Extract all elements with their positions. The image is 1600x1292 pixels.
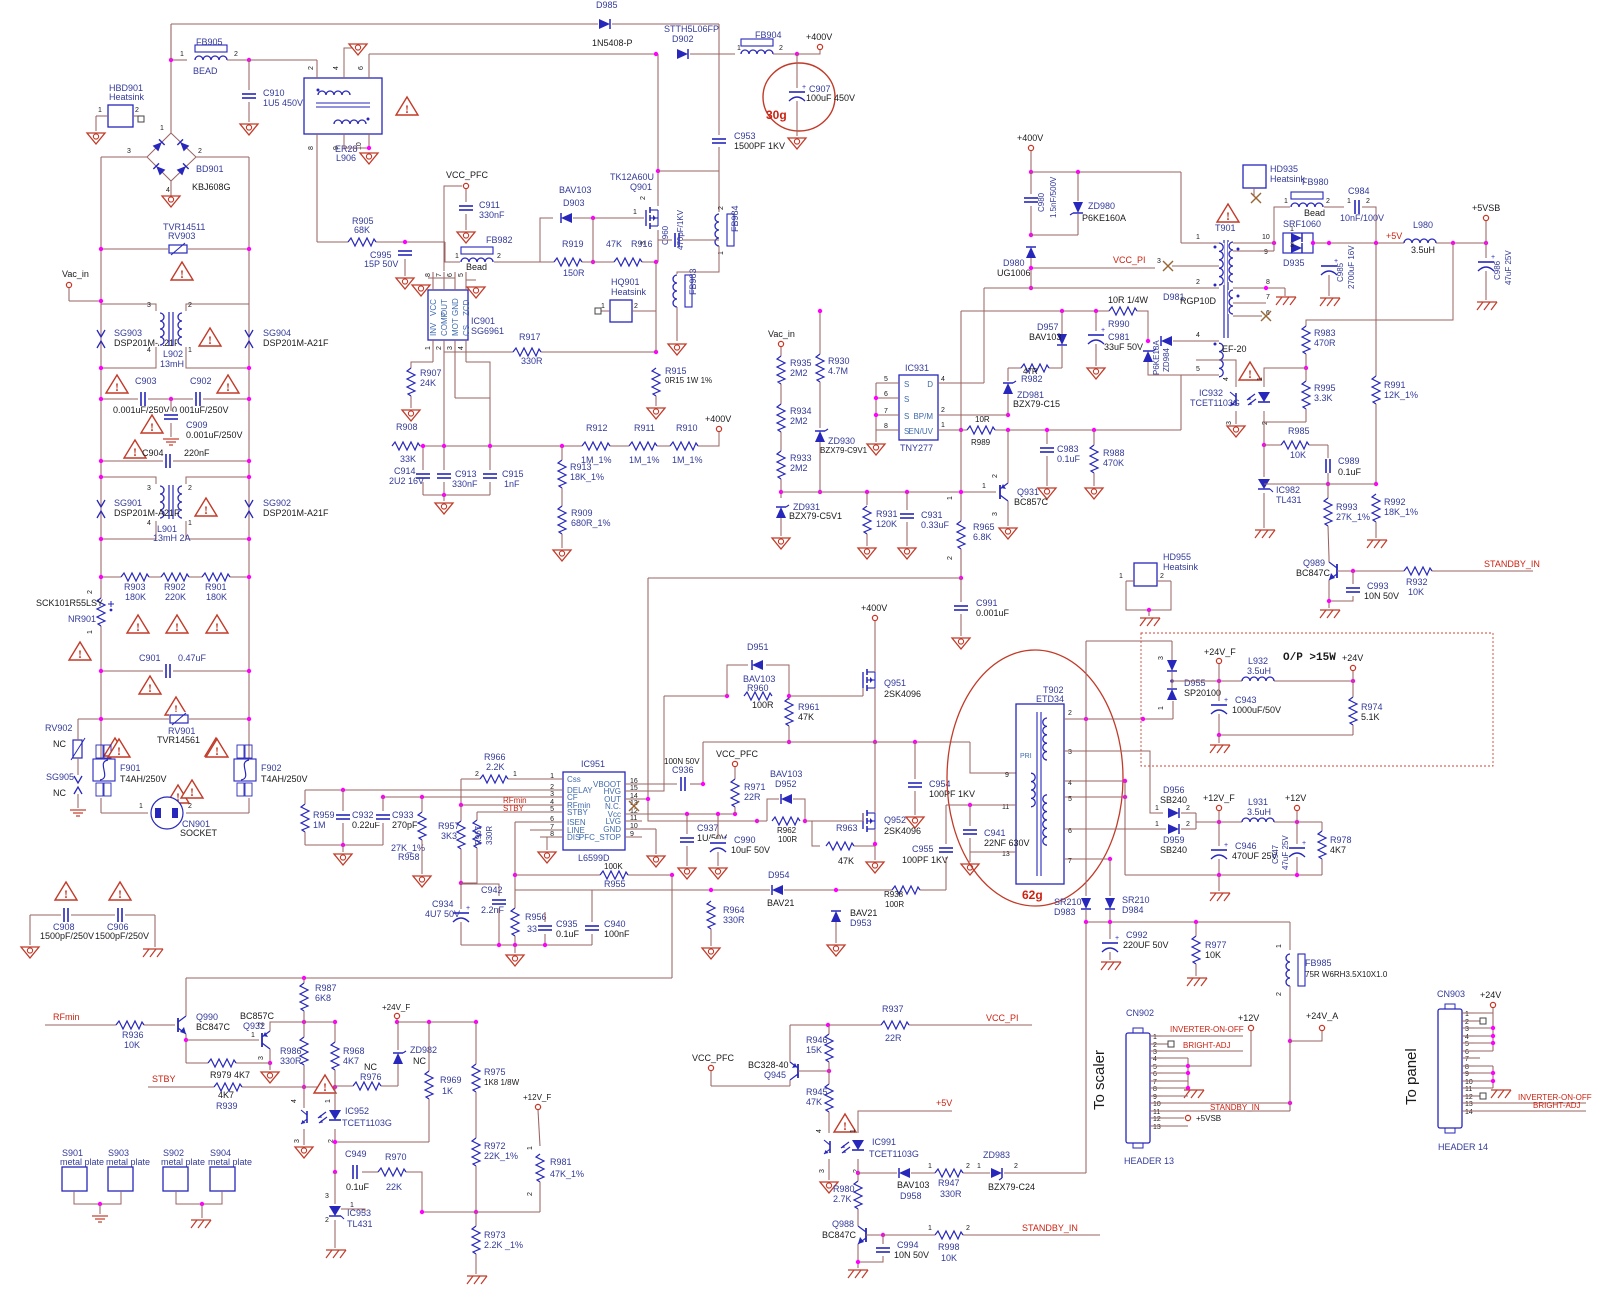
svg-text:9: 9 <box>1264 249 1268 256</box>
svg-text:!: ! <box>208 333 212 347</box>
wire <box>1296 811 1298 822</box>
wire <box>1474 1042 1493 1044</box>
svg-text:3: 3 <box>1465 1026 1469 1033</box>
svg-text:4: 4 <box>147 347 151 354</box>
wire <box>1030 206 1032 235</box>
svg-text:11: 11 <box>1153 1109 1160 1116</box>
junction <box>442 493 446 497</box>
svg-text:2: 2 <box>1014 1163 1018 1170</box>
svg-text:2: 2 <box>325 1217 329 1224</box>
junction <box>725 694 729 698</box>
svg-text:C934: C934 <box>432 899 454 909</box>
junction <box>779 490 783 494</box>
node +5VSB <box>1483 215 1488 220</box>
svg-text:TVR14561: TVR14561 <box>157 735 200 745</box>
wire <box>498 908 500 945</box>
svg-text:5.1K: 5.1K <box>1361 712 1380 722</box>
wire IC951 pin 10 <box>625 828 642 830</box>
wire <box>1474 1072 1493 1074</box>
wire <box>1195 922 1197 936</box>
ground Q932 <box>261 1072 279 1083</box>
svg-text:+5VSB: +5VSB <box>1196 1114 1221 1123</box>
svg-text:IC951: IC951 <box>581 759 605 769</box>
resistor R972 <box>471 1138 481 1166</box>
svg-text:R983: R983 <box>1314 328 1336 338</box>
svg-text:2SK4096: 2SK4096 <box>884 689 921 699</box>
wire <box>475 1092 477 1138</box>
svg-text:6: 6 <box>358 66 365 70</box>
wire Css row <box>461 778 530 780</box>
wire +12V rail <box>1196 821 1322 823</box>
ground Q988 <box>848 1269 868 1271</box>
wire <box>874 846 876 860</box>
svg-text:220UF 50V: 220UF 50V <box>1123 940 1169 950</box>
wire Q952 source <box>874 829 876 844</box>
wire aux out row <box>1086 921 1290 923</box>
wire <box>1162 1057 1188 1059</box>
capacitor C940 <box>584 923 600 933</box>
svg-text:SRF1060: SRF1060 <box>1283 219 1321 229</box>
svg-text:UG1006: UG1006 <box>997 268 1031 278</box>
terminator CN902 pin2 <box>1168 1041 1174 1047</box>
svg-text:13: 13 <box>1465 1101 1473 1108</box>
ground IC982 <box>1255 529 1275 531</box>
wire RFmin row <box>461 804 530 806</box>
svg-text:R982: R982 <box>1021 374 1043 384</box>
svg-text:BC847C: BC847C <box>196 1022 231 1032</box>
svg-text:2: 2 <box>634 303 638 310</box>
svg-text:18K_1%: 18K_1% <box>1384 507 1418 517</box>
svg-text:+: + <box>1224 842 1228 849</box>
node +24V_A <box>1319 1025 1324 1030</box>
ferrite bead FB904 <box>740 38 774 55</box>
wire D983 feed <box>1085 719 1087 896</box>
svg-text:15P 50V: 15P 50V <box>364 259 398 269</box>
transformer T901 core <box>1223 240 1225 338</box>
ferrite bead FB905 coil <box>195 55 227 61</box>
wire <box>1126 580 1134 582</box>
wire CN902 pin 6 <box>1150 1072 1162 1074</box>
svg-text:22K: 22K <box>386 1182 402 1192</box>
wire <box>592 218 594 262</box>
wire <box>1007 368 1009 381</box>
spark gap SG903 <box>97 330 105 348</box>
wire S904 gnd <box>202 1191 222 1204</box>
svg-text:12K_1%: 12K_1% <box>1384 390 1418 400</box>
junction <box>1351 569 1355 573</box>
transformer T902 primary <box>1030 773 1036 807</box>
wire <box>690 783 703 785</box>
wire <box>1077 214 1079 235</box>
svg-text:330nF: 330nF <box>452 479 478 489</box>
svg-text:RV903: RV903 <box>168 231 195 241</box>
capacitor C902 <box>193 391 203 407</box>
wire STANDBY_IN row <box>883 1234 1100 1236</box>
svg-text:1: 1 <box>941 422 945 429</box>
svg-text:1N5408-P: 1N5408-P <box>592 38 633 48</box>
svg-text:3: 3 <box>640 241 647 245</box>
wire +400V to Q951 drain <box>874 621 876 668</box>
svg-text:24K: 24K <box>420 378 436 388</box>
svg-text:KBJ608G: KBJ608G <box>192 182 231 192</box>
wire <box>250 1062 270 1064</box>
ferrite bead FB982 <box>460 246 494 263</box>
svg-text:R960: R960 <box>747 683 769 693</box>
optocoupler IC932 <box>1227 387 1272 411</box>
junction <box>1141 717 1145 721</box>
svg-text:4: 4 <box>816 1129 823 1133</box>
svg-text:R989: R989 <box>971 438 991 447</box>
wire <box>1492 1066 1494 1088</box>
wire IC901 top pin <box>432 272 434 290</box>
wire <box>819 382 821 428</box>
resistor R986 <box>299 1037 309 1065</box>
wire <box>342 845 344 852</box>
wire C909 top <box>170 399 172 411</box>
wire VBOOT riser <box>702 742 704 784</box>
svg-text:10uF 50V: 10uF 50V <box>731 845 770 855</box>
svg-text:12: 12 <box>1465 1094 1473 1101</box>
svg-text:1000uF/50V: 1000uF/50V <box>1232 705 1281 715</box>
svg-text:+: + <box>723 835 727 842</box>
capacitor C933 <box>375 812 391 822</box>
svg-text:100PF 1KV: 100PF 1KV <box>902 855 948 865</box>
svg-text:6: 6 <box>1153 1071 1157 1078</box>
svg-text:PRI: PRI <box>1020 753 1032 760</box>
diode D955 bottom <box>1166 687 1178 701</box>
svg-text:R961: R961 <box>798 702 820 712</box>
wire IC931 S pin <box>876 382 899 384</box>
svg-text:4K7: 4K7 <box>218 1090 234 1100</box>
svg-text:1: 1 <box>928 1225 932 1232</box>
wire <box>1218 681 1220 701</box>
svg-text:TNY277: TNY277 <box>900 443 933 453</box>
junction <box>1147 608 1151 612</box>
ground C941 <box>961 864 979 875</box>
svg-text:4: 4 <box>166 187 170 194</box>
capacitor C994 <box>875 1245 891 1255</box>
resistor R907 <box>406 368 416 396</box>
earth ground SG905 <box>70 809 86 811</box>
wire <box>443 446 445 470</box>
svg-text:R902: R902 <box>164 582 186 592</box>
wire IC952 pin3 <box>303 1129 305 1145</box>
wire Q945 collector <box>711 1085 790 1087</box>
npn transistor Q988 <box>857 1225 869 1245</box>
svg-text:2.2K _1%: 2.2K _1% <box>484 1240 523 1250</box>
svg-text:R931: R931 <box>876 509 898 519</box>
wire IC901 bottom pin <box>432 340 434 352</box>
capacitor C992 <box>1101 939 1119 952</box>
junction <box>856 1260 860 1264</box>
wire IC951 pin 16 <box>625 783 642 785</box>
svg-text:R939: R939 <box>216 1101 238 1111</box>
svg-text:R962: R962 <box>777 826 797 835</box>
wire CN902 pin 11 <box>1150 1110 1162 1112</box>
svg-text:4: 4 <box>458 346 465 350</box>
wire CN903 pin 9 <box>1462 1072 1474 1074</box>
svg-text:2.7K: 2.7K <box>833 1194 852 1204</box>
svg-text:2: 2 <box>718 206 725 210</box>
wire pin5 stub <box>1196 374 1219 376</box>
mosfet Q901 <box>644 206 660 230</box>
svg-text:GND: GND <box>451 298 460 316</box>
wire L906 pin4 gnd <box>344 48 352 78</box>
wire FB904 out <box>773 53 797 55</box>
ferrite bead FB980 coil <box>1291 202 1323 208</box>
svg-text:47K: 47K <box>798 712 814 722</box>
wire L906 pin9 <box>344 134 369 148</box>
junction <box>1146 339 1150 343</box>
wire <box>874 668 876 672</box>
svg-text:C902: C902 <box>190 376 212 386</box>
wire <box>1474 1102 1586 1104</box>
svg-text:10K: 10K <box>1205 950 1221 960</box>
junction <box>685 812 689 816</box>
wire <box>1321 859 1323 875</box>
resistor R976 <box>353 1081 381 1091</box>
wire IC901 top pin <box>454 272 456 290</box>
ground IC952 <box>295 1147 313 1158</box>
junction <box>1327 599 1331 603</box>
svg-text:3: 3 <box>1290 242 1294 249</box>
wire IC901 top pin <box>443 272 445 290</box>
svg-text:L980: L980 <box>1413 220 1433 230</box>
wire CN903 pin 8 <box>1462 1065 1474 1067</box>
warning IC991 <box>834 1114 856 1132</box>
wire CN902 pin 5 <box>1150 1065 1162 1067</box>
svg-text:1: 1 <box>513 771 517 778</box>
junction <box>513 873 517 877</box>
wire AC neutral rail right <box>248 157 250 759</box>
junction EN UV <box>959 428 963 432</box>
svg-text:SG6961: SG6961 <box>471 326 504 336</box>
mosfet Q951 <box>861 668 877 692</box>
ground R973 <box>467 1275 487 1277</box>
svg-text:R967: R967 <box>474 825 483 845</box>
earth ground C909 <box>163 438 179 440</box>
wire <box>1474 1012 1493 1014</box>
svg-text:14: 14 <box>1465 1109 1473 1116</box>
svg-text:0.1uF: 0.1uF <box>1057 454 1081 464</box>
capacitor C901 <box>163 663 173 679</box>
wire <box>1327 445 1329 460</box>
warning F901 <box>108 739 130 757</box>
junction <box>1484 241 1488 245</box>
metal plate S904 <box>210 1167 235 1191</box>
svg-text:L932: L932 <box>1248 656 1268 666</box>
svg-text:62g: 62g <box>1022 888 1043 902</box>
svg-text:47K_1%: 47K_1% <box>550 1169 584 1179</box>
svg-text:!: ! <box>117 744 121 758</box>
wire <box>475 1225 477 1227</box>
junction BP/M <box>1006 413 1010 417</box>
wire standby fb row <box>858 1172 1086 1174</box>
wire L901 pin1 <box>186 521 249 539</box>
capacitor C955 <box>938 845 954 855</box>
wire gate stub <box>862 688 864 696</box>
svg-text:2: 2 <box>527 1192 534 1196</box>
ground C907 <box>788 138 806 149</box>
junction <box>302 976 306 980</box>
svg-text:R910: R910 <box>676 423 698 433</box>
transformer L906 dots <box>317 89 320 92</box>
resistor R958 <box>417 812 427 840</box>
svg-text:C947: C947 <box>1271 844 1280 864</box>
resistor R979 <box>208 1058 236 1068</box>
junction <box>1272 241 1276 245</box>
wire <box>460 883 462 909</box>
svg-text:Vac_in: Vac_in <box>768 329 795 339</box>
junction <box>99 537 103 541</box>
fuse F901 pads <box>96 745 103 758</box>
wire <box>1162 1095 1188 1097</box>
diode D952 <box>779 793 793 805</box>
svg-text:3.5uH: 3.5uH <box>1247 807 1271 817</box>
wire RV902 to SG905 <box>77 758 79 775</box>
svg-text:3: 3 <box>1153 1049 1157 1056</box>
svg-text:100PF 1KV: 100PF 1KV <box>929 789 975 799</box>
wire <box>1031 171 1078 173</box>
warning C909 <box>141 415 163 433</box>
svg-text:D: D <box>927 380 933 389</box>
transformer T902 sec lower <box>1042 795 1048 845</box>
warning <box>104 738 126 756</box>
wire <box>460 779 462 805</box>
junction <box>420 1210 424 1214</box>
junction <box>1491 1041 1495 1045</box>
svg-text:R978: R978 <box>1330 835 1352 845</box>
wire IC951 pin 9 <box>625 836 642 838</box>
svg-text:ZD982: ZD982 <box>410 1045 437 1055</box>
wire <box>710 929 712 946</box>
wire <box>734 767 736 781</box>
wire IC951 pin 3 <box>530 796 563 798</box>
wire <box>334 1220 336 1248</box>
junction <box>302 1020 306 1024</box>
svg-text:C953: C953 <box>734 131 756 141</box>
junction <box>333 1140 337 1144</box>
diode D903 <box>559 212 573 224</box>
junction <box>873 740 877 744</box>
svg-text:100R: 100R <box>885 900 904 909</box>
svg-text:R969: R969 <box>440 1075 462 1085</box>
ground C995 <box>396 278 414 289</box>
svg-text:R917: R917 <box>519 332 541 342</box>
wire riser to bottom <box>671 875 673 978</box>
svg-text:3: 3 <box>258 1056 265 1060</box>
transformer L906 secondary <box>334 119 366 125</box>
junction <box>1123 779 1127 783</box>
wire IC991 pin3 <box>828 1159 830 1180</box>
svg-text:C960: C960 <box>661 225 670 245</box>
warning L902 <box>199 328 221 346</box>
svg-text:22R: 22R <box>744 792 761 802</box>
svg-text:4: 4 <box>333 66 340 70</box>
svg-text:100R: 100R <box>778 835 797 844</box>
wire C907 gnd <box>796 101 798 136</box>
ground C991 <box>952 638 970 649</box>
wire STANDBY row <box>1337 570 1533 572</box>
wire <box>1474 1087 1493 1089</box>
svg-text:R965: R965 <box>973 522 995 532</box>
wire HBD901 gnd <box>95 116 97 131</box>
svg-text:Bead: Bead <box>1304 208 1325 218</box>
wire C911 top <box>465 189 467 202</box>
junction D957 <box>1060 309 1064 313</box>
junction <box>873 842 877 846</box>
svg-text:R993: R993 <box>1336 502 1358 512</box>
wire <box>717 814 719 839</box>
wire T901 pin3 stub <box>1172 265 1219 267</box>
svg-text:6: 6 <box>884 391 888 398</box>
resistor R983 <box>1301 326 1311 354</box>
svg-text:Heatsink: Heatsink <box>1163 562 1199 572</box>
junction <box>1288 1101 1292 1105</box>
svg-text:2: 2 <box>1160 573 1164 580</box>
wire to T901 pin4 <box>1173 340 1196 342</box>
wire <box>862 813 864 821</box>
resistor R967 <box>472 820 482 848</box>
svg-text:DSP201M-A21F: DSP201M-A21F <box>263 338 329 348</box>
wire IC991 pin2 <box>857 1159 859 1173</box>
capacitor C910 <box>241 91 257 101</box>
junction RV903 left <box>99 247 103 251</box>
transformer T901 dots <box>1214 246 1217 249</box>
wire bridge top to D985 line <box>170 24 172 133</box>
svg-text:1: 1 <box>1347 198 1351 205</box>
svg-text:R934: R934 <box>790 406 812 416</box>
wire to FB982 <box>445 242 460 262</box>
svg-text:Bead: Bead <box>466 262 487 272</box>
wire R955 row <box>515 874 672 876</box>
svg-text:Q951: Q951 <box>884 678 906 688</box>
wire <box>1485 271 1487 300</box>
wire <box>342 790 344 811</box>
svg-text:R911: R911 <box>634 423 655 433</box>
svg-text:+: + <box>466 905 470 912</box>
svg-text:0R15 1W 1%: 0R15 1W 1% <box>665 376 712 385</box>
wire FB905 pin1 <box>171 59 187 61</box>
wire R963 branch <box>805 821 820 846</box>
svg-text:220nF: 220nF <box>184 448 210 458</box>
svg-text:10: 10 <box>356 142 363 150</box>
wire <box>1263 445 1265 477</box>
capacitor C985 <box>1320 262 1338 275</box>
wire T902 pin7 <box>1064 858 1110 860</box>
wire <box>1109 952 1111 960</box>
wire 12V return row <box>1125 874 1322 876</box>
node +400V <box>817 44 822 49</box>
transformer L906 primary <box>318 90 350 96</box>
junction <box>247 366 251 370</box>
wire Vcc rail <box>642 813 735 815</box>
svg-text:BC847C: BC847C <box>1296 568 1331 578</box>
wire CN903 pin 12 <box>1462 1095 1474 1097</box>
svg-text:SG905: SG905 <box>46 772 74 782</box>
svg-text:FB985: FB985 <box>1305 958 1332 968</box>
IC TL431 IC953 <box>327 1204 343 1220</box>
wire <box>875 430 877 442</box>
warning <box>166 615 188 633</box>
svg-text:0.1uF: 0.1uF <box>346 1182 370 1192</box>
wire VCC supply row <box>317 241 445 243</box>
svg-text:R932: R932 <box>1406 577 1428 587</box>
svg-text:10K: 10K <box>1290 450 1306 460</box>
wire X-cap row <box>101 398 249 400</box>
junction <box>560 444 564 448</box>
wire IC951 pin 1 <box>530 778 563 780</box>
